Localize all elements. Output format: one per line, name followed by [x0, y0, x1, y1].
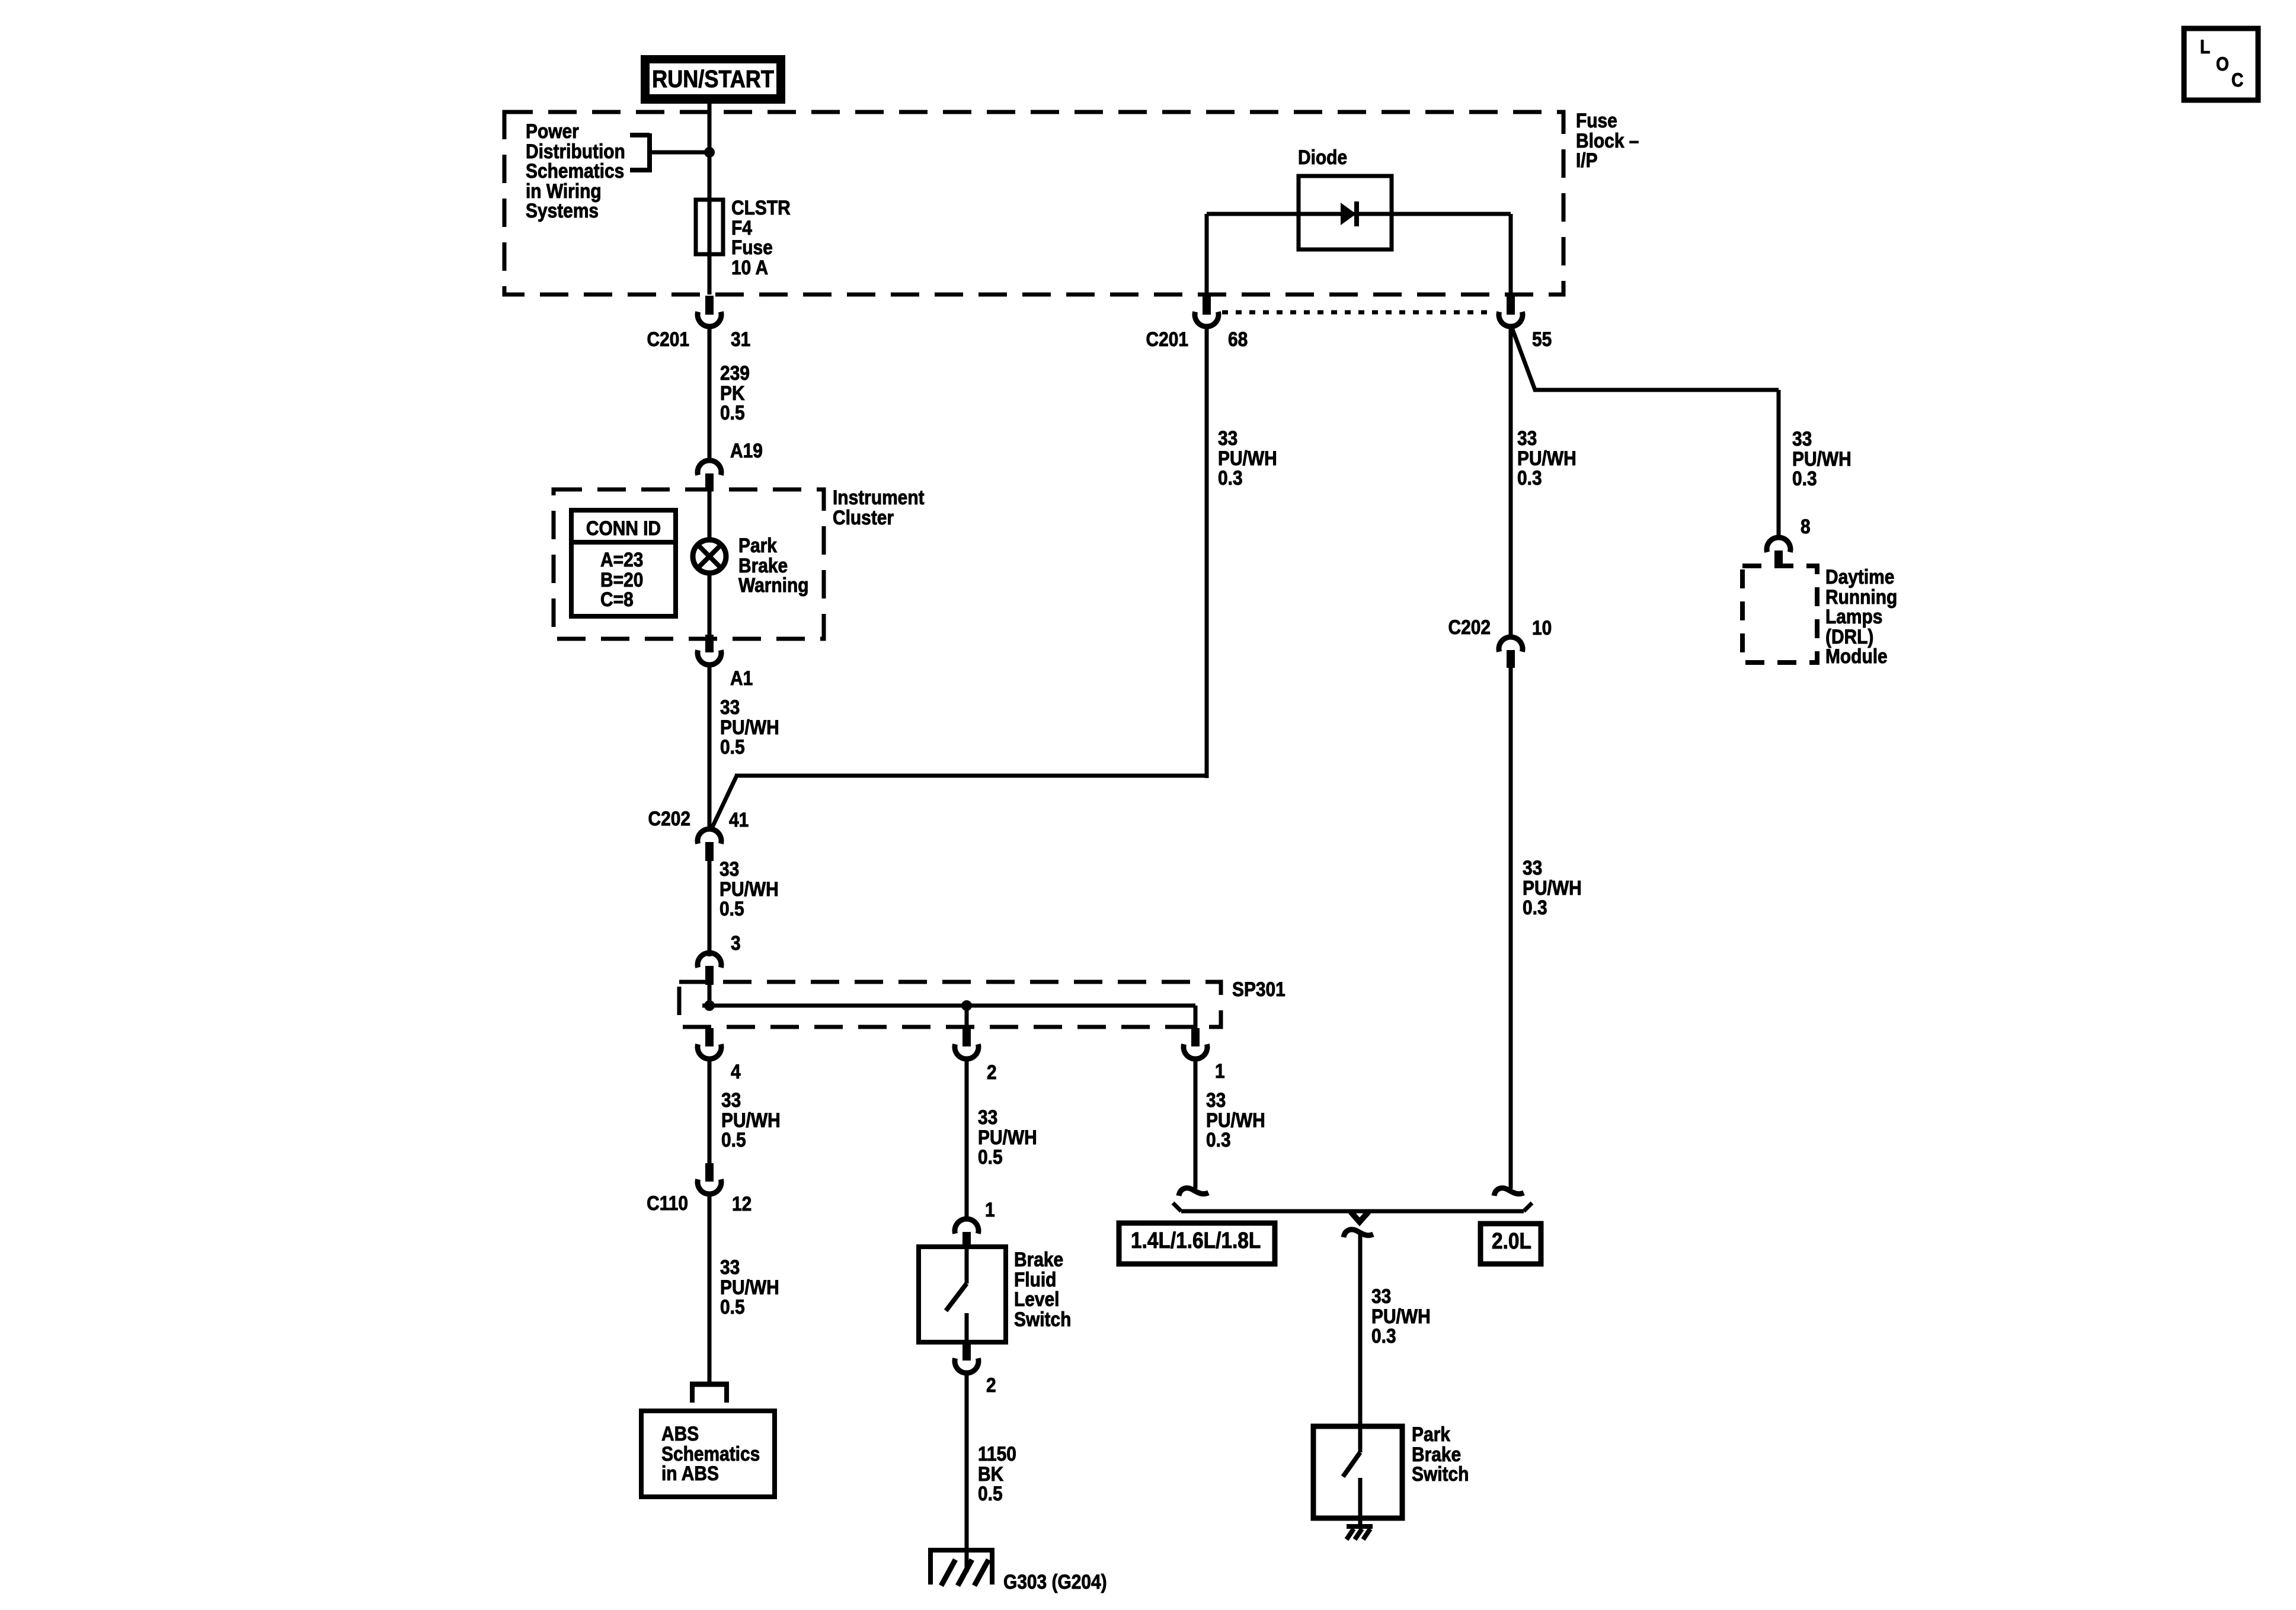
svg-text:41: 41 [729, 808, 749, 831]
svg-text:0.3: 0.3 [1517, 466, 1542, 489]
wire C202-10 down [1509, 668, 1513, 1189]
wire pin55 diagonal to DRL feed [1512, 328, 1535, 390]
wire horizontal to C202-41 [735, 774, 1207, 778]
svg-text:C110: C110 [647, 1192, 688, 1214]
svg-text:1.4L/1.6L/1.8L: 1.4L/1.6L/1.8L [1131, 1228, 1261, 1253]
switch position label RUN/START [641, 55, 785, 104]
svg-text:8: 8 [1801, 515, 1811, 537]
svg-text:0.5: 0.5 [978, 1482, 1003, 1505]
svg-text:33: 33 [1523, 856, 1542, 879]
svg-text:Power: Power [526, 120, 579, 142]
svg-text:0.3: 0.3 [1206, 1128, 1231, 1151]
wire diode right leg to pin 55 [1509, 214, 1513, 296]
ABS reference bracket [690, 1382, 729, 1387]
svg-text:SP301: SP301 [1232, 978, 1285, 1000]
svg-text:33: 33 [1218, 427, 1237, 449]
svg-text:1: 1 [1215, 1060, 1225, 1082]
connector pin 3 into SP301 [698, 953, 721, 968]
wire merge to park brake switch [1358, 1231, 1363, 1426]
svg-text:Instrument: Instrument [833, 486, 925, 508]
connector C202 pin 41 [698, 829, 721, 844]
svg-text:C202: C202 [1448, 616, 1491, 638]
svg-text:Switch: Switch [1412, 1462, 1469, 1485]
connector SP301 pin 4 [705, 1028, 714, 1046]
wire lamp to A1 [708, 573, 712, 635]
ground G303 [928, 1548, 994, 1553]
wire A1 to C202-41 [708, 665, 712, 830]
svg-text:RUN/START: RUN/START [652, 66, 774, 93]
svg-text:C201: C201 [1146, 328, 1188, 350]
svg-text:0.5: 0.5 [720, 735, 745, 758]
chassis ground below park brake switch [1358, 1518, 1363, 1528]
fuse CLSTR F4 10A [696, 200, 723, 254]
svg-text:0.5: 0.5 [720, 897, 744, 920]
svg-text:Park: Park [1412, 1423, 1450, 1445]
Daytime Running Lamps DRL Module dashed box [1742, 566, 1817, 662]
wire A19 pin to lamp [708, 491, 712, 540]
svg-text:10: 10 [1532, 616, 1552, 639]
connector C201 pin 31 [705, 296, 714, 315]
svg-text:4: 4 [731, 1060, 741, 1083]
svg-text:G303 (G204): G303 (G204) [1003, 1570, 1107, 1593]
wire SP301-4 to C110 [708, 1059, 712, 1163]
svg-text:in ABS: in ABS [661, 1462, 719, 1484]
connector C110 pin 12 [705, 1163, 714, 1182]
engine label box 1.4L/1.6L/1.8L [1119, 1223, 1275, 1264]
svg-text:33: 33 [720, 1256, 740, 1278]
wire SP301-1 down [1194, 1059, 1198, 1189]
svg-text:C202: C202 [648, 807, 690, 830]
svg-text:C201: C201 [647, 328, 689, 350]
connector A19 instrument cluster [698, 460, 721, 475]
svg-text:0.5: 0.5 [720, 1295, 745, 1318]
park brake switch S2 box [1313, 1426, 1402, 1518]
svg-text:Switch: Switch [1014, 1308, 1071, 1330]
svg-text:68: 68 [1228, 328, 1248, 350]
wire C110-12 to ABS [708, 1194, 712, 1383]
svg-text:0.5: 0.5 [721, 1128, 746, 1151]
svg-text:33: 33 [978, 1106, 997, 1128]
dotted connector line C201 [1222, 311, 1494, 315]
wire tap to power distribution bracket [650, 151, 709, 155]
engine option hook left [1179, 1188, 1208, 1196]
brake fluid level switch S1 box [919, 1247, 1006, 1342]
connector pin 55 [1507, 296, 1515, 315]
diode D1 symbol [1341, 203, 1356, 225]
svg-text:Cluster: Cluster [833, 506, 894, 529]
wire diagonal into C202-41 [711, 776, 737, 831]
svg-text:0.5: 0.5 [978, 1145, 1003, 1168]
diode box [1299, 176, 1392, 249]
svg-text:Module: Module [1825, 645, 1888, 667]
CONN ID table [571, 510, 676, 616]
svg-text:Fuse: Fuse [1576, 109, 1617, 132]
svg-text:33: 33 [720, 696, 740, 718]
svg-text:0.3: 0.3 [1792, 467, 1817, 489]
wire pin55 down to C202-10 [1509, 327, 1513, 636]
svg-text:10 A: 10 A [731, 256, 768, 279]
svg-text:0.3: 0.3 [1523, 896, 1547, 918]
svg-text:CLSTR: CLSTR [731, 196, 791, 219]
ABS Schematics reference box [641, 1411, 775, 1497]
wire into SP301 bus [708, 985, 712, 1006]
svg-text:Brake: Brake [1014, 1248, 1063, 1270]
connector DRL pin 8 [1767, 537, 1790, 552]
bracket for Power Distribution Schematics reference [647, 133, 652, 172]
svg-text:L: L [2200, 37, 2210, 57]
svg-text:2: 2 [987, 1061, 997, 1083]
svg-text:A19: A19 [730, 439, 763, 462]
svg-text:Fuse: Fuse [731, 236, 773, 258]
svg-text:Warning: Warning [738, 574, 809, 596]
connector switch pin 1 [955, 1219, 978, 1234]
svg-text:C: C [2231, 70, 2243, 91]
engine option hook right [1494, 1188, 1524, 1196]
svg-text:3: 3 [731, 932, 741, 954]
engine label box 2.0L [1480, 1224, 1541, 1264]
svg-text:55: 55 [1532, 328, 1552, 350]
splice pack SP301 dashed box [679, 982, 1221, 1027]
indicator lamp Park Brake Warning [693, 540, 726, 573]
brake fluid level switch contacts [965, 1247, 969, 1283]
svg-text:Diode: Diode [1298, 146, 1347, 168]
svg-text:Level: Level [1014, 1288, 1059, 1310]
svg-text:0.5: 0.5 [720, 401, 745, 424]
merge exit hook [1344, 1230, 1373, 1237]
connector A1 instrument cluster [705, 635, 714, 652]
wire C201-68 down leg [1205, 327, 1209, 778]
svg-text:1: 1 [985, 1198, 995, 1221]
wire to DRL horizontal [1533, 388, 1779, 392]
junction dot SP301 left [704, 1000, 715, 1011]
wire C201-31 to A19 [708, 327, 712, 459]
connector switch pin 2 [962, 1342, 971, 1361]
svg-text:C=8: C=8 [600, 588, 634, 610]
svg-text:0.3: 0.3 [1371, 1324, 1396, 1347]
svg-text:2: 2 [986, 1374, 996, 1396]
fuse block I/P dashed box [504, 112, 1563, 295]
junction dot power-distribution tap [704, 147, 715, 158]
wire C202-41 to splice 3 [708, 860, 712, 956]
LOC legend box [2184, 28, 2258, 100]
svg-text:33: 33 [1371, 1285, 1391, 1307]
engine option merge line [1181, 1209, 1524, 1214]
svg-text:0.3: 0.3 [1218, 466, 1243, 489]
connector C202 pin 10 [1499, 637, 1523, 652]
svg-text:2.0L: 2.0L [1492, 1228, 1531, 1253]
svg-text:Schematics: Schematics [526, 159, 624, 182]
svg-text:ABS: ABS [661, 1422, 699, 1445]
svg-text:12: 12 [732, 1192, 752, 1215]
svg-text:Daytime: Daytime [1825, 565, 1894, 588]
wire diode left leg to C201-68 [1205, 214, 1209, 296]
svg-text:239: 239 [720, 361, 750, 384]
instrument cluster dashed box [554, 489, 824, 639]
park brake switch contacts [1358, 1426, 1363, 1452]
svg-text:1150: 1150 [978, 1442, 1016, 1465]
wire from RUN/START to fuse F4 [708, 104, 712, 202]
svg-text:33: 33 [1792, 427, 1812, 450]
svg-text:33: 33 [720, 857, 739, 880]
svg-text:A1: A1 [730, 667, 753, 689]
wire switch to ground G303 [965, 1373, 969, 1572]
connector C201 pin 68 [1203, 296, 1211, 315]
svg-text:CONN ID: CONN ID [586, 517, 661, 539]
wire through diode [1207, 212, 1511, 216]
SP301 bus wire [702, 1004, 1195, 1008]
wire SP301 middle branch [965, 1006, 969, 1028]
svg-text:I/P: I/P [1576, 149, 1598, 171]
svg-text:33: 33 [1517, 427, 1537, 449]
svg-text:O: O [2216, 54, 2229, 75]
junction dot SP301 middle [961, 1000, 972, 1011]
svg-text:Systems: Systems [526, 199, 599, 222]
connector SP301 pin 1 [1191, 1028, 1200, 1046]
svg-text:Lamps: Lamps [1825, 605, 1882, 628]
svg-text:Park: Park [738, 534, 777, 556]
wire through fuse [708, 202, 712, 295]
wire DRL vertical [1777, 390, 1781, 536]
svg-text:31: 31 [731, 328, 750, 350]
svg-text:33: 33 [1206, 1089, 1226, 1111]
svg-text:33: 33 [721, 1089, 741, 1111]
connector SP301 pin 2 [962, 1028, 971, 1046]
wire SP301-2 to switch [965, 1059, 969, 1219]
svg-text:A=23: A=23 [600, 548, 643, 571]
